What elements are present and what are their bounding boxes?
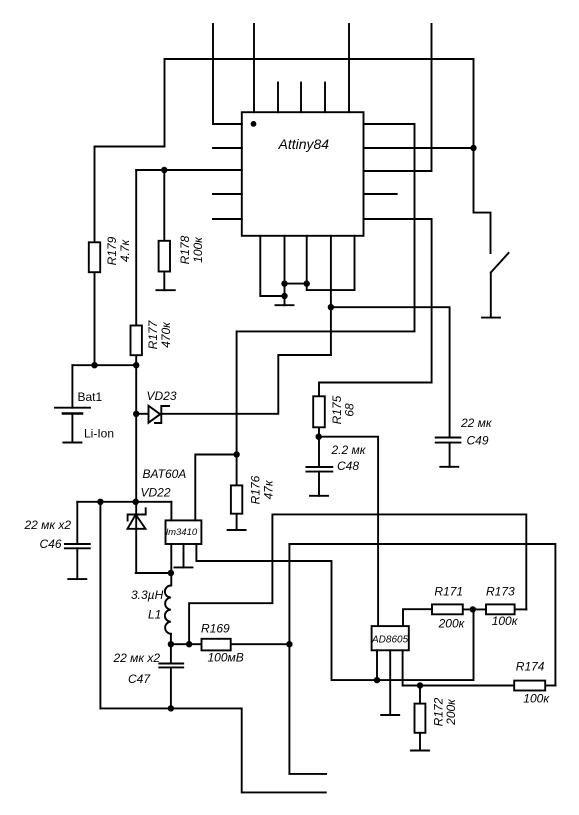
svg-text:VD23: VD23	[147, 389, 177, 403]
junction node at switch net	[470, 145, 476, 151]
svg-text:R169: R169	[201, 622, 230, 636]
junction node R177 bottom	[133, 362, 139, 368]
wire feedback branch	[189, 514, 526, 644]
wire C48 top	[318, 437, 320, 467]
junction node C46 rail	[97, 499, 103, 505]
svg-text:C49: C49	[467, 434, 489, 448]
svg-text:2.2 мк: 2.2 мк	[331, 443, 367, 457]
svg-text:AD8605: AD8605	[371, 635, 409, 646]
svg-text:100к: 100к	[191, 236, 205, 263]
wire R176 bottom	[236, 514, 238, 530]
wire R174 right	[545, 685, 555, 687]
wire battery top	[71, 365, 73, 408]
resistor R176 body	[231, 485, 242, 513]
junction node R178 top	[161, 167, 167, 173]
svg-text:VD22: VD22	[141, 486, 171, 500]
wire IC bottom pin x260	[260, 236, 284, 296]
wire bus y544 R174 net	[289, 544, 555, 686]
ground C49	[440, 466, 458, 468]
wire IC bottom pin x306	[307, 236, 355, 290]
wire R172 top	[419, 686, 421, 704]
wire R175 node to AD8605 top pin	[319, 437, 378, 626]
svg-text:100к: 100к	[492, 614, 519, 628]
resistor R169 body	[202, 639, 231, 651]
junction node IC gnd pin306	[304, 280, 310, 286]
ground R176	[228, 529, 246, 531]
diode VD23 triangle	[149, 406, 161, 423]
junction node VD22 bottom	[168, 570, 174, 576]
svg-text:R179: R179	[105, 236, 119, 265]
svg-text:C48: C48	[337, 459, 359, 473]
switch SW1 blade	[491, 253, 509, 273]
junction node L1 bottom	[168, 641, 174, 647]
wire IC left pin y170	[136, 169, 242, 171]
svg-text:68: 68	[343, 403, 357, 417]
wire IC top stub x325	[324, 83, 326, 113]
svg-text:22 мк: 22 мк	[460, 416, 493, 430]
junction node AD8605 minus	[374, 677, 380, 683]
junction node C49 tap	[328, 304, 334, 310]
inductor L1 coil	[165, 586, 171, 634]
op-amp U3 AD8605 box	[372, 626, 409, 650]
resistor R178 body	[159, 241, 170, 272]
wire left drop from top bus	[95, 59, 165, 242]
ground C48	[310, 495, 328, 497]
junction node R175 bottom	[316, 434, 322, 440]
battery Bat1 plate long	[55, 407, 90, 409]
capacitor C48 plate top	[306, 466, 332, 468]
svg-text:C47: C47	[128, 672, 151, 686]
capacitor C46 plate bottom	[65, 547, 90, 549]
wire C48 bottom	[318, 472, 320, 496]
svg-text:47к: 47к	[262, 479, 276, 499]
wire IC right pin y148 to node	[364, 147, 474, 149]
svg-text:R176: R176	[249, 475, 263, 504]
wire IC top stub x278	[277, 83, 279, 113]
svg-text:Bat1: Bat1	[78, 390, 103, 404]
junction node R172 top	[417, 682, 423, 688]
wire R176 node to lm3410 top pin right	[195, 455, 236, 521]
wire IC left stub y148	[213, 147, 242, 149]
resistor R171 body	[432, 604, 463, 614]
wire node to switch	[474, 148, 491, 253]
ground R172	[411, 750, 429, 752]
svg-text:R171: R171	[434, 585, 463, 599]
wire C49 branch y307	[331, 307, 450, 437]
junction node R171 R173	[470, 606, 476, 612]
ground switch	[482, 317, 500, 319]
wire R179 bottom	[94, 272, 96, 365]
wire R178 top	[163, 170, 165, 241]
capacitor C46 plate top	[65, 543, 90, 545]
wire IC bottom pin x284 to ground	[284, 236, 286, 305]
resistor R177 body	[131, 326, 142, 356]
svg-text:R174: R174	[516, 660, 545, 674]
IC U1 Attiny84 box	[242, 112, 364, 236]
wire IC top pin x254	[253, 24, 255, 112]
wire R175 bottom	[318, 427, 320, 436]
ground lm3410	[175, 566, 193, 568]
wire R172 bottom	[419, 733, 421, 751]
wire pin x306 tap to ground node	[285, 283, 307, 285]
wire IC left stub y219	[213, 218, 242, 220]
wire vertical x213 to IC pin PA?	[213, 24, 242, 124]
svg-text:BAT60A: BAT60A	[143, 467, 187, 481]
svg-text:470к: 470к	[159, 321, 173, 348]
resistor R174 body	[514, 681, 545, 691]
capacitor C48 plate bottom	[306, 471, 332, 473]
junction node C47 bottom	[168, 705, 174, 711]
wire R169 right	[231, 643, 290, 645]
wire IC top pin x349	[348, 24, 350, 112]
junction node VD22 top	[133, 499, 139, 505]
wire C49 bottom	[449, 443, 451, 467]
svg-text:22 мк x2: 22 мк x2	[113, 651, 161, 665]
wire lm3410 pin GND	[183, 544, 185, 567]
wire R178 bottom	[163, 272, 165, 291]
wire battery bottom	[71, 414, 73, 443]
svg-text:200к: 200к	[438, 617, 466, 631]
wire ground bus y708	[100, 708, 325, 792]
diode VD23 cathode bar	[155, 406, 169, 423]
wire AD8605 plus pin to R172 R174	[403, 650, 515, 685]
wire C46 bottom	[76, 548, 78, 579]
battery Bat1 plate short	[63, 412, 82, 415]
svg-text:R173: R173	[486, 585, 515, 599]
wire L1 bottom	[170, 634, 172, 644]
wire R171 right to node	[463, 608, 486, 610]
svg-text:Li-Ion: Li-Ion	[84, 427, 114, 441]
svg-text:100к: 100к	[523, 692, 550, 706]
svg-text:100мВ: 100мВ	[208, 651, 244, 665]
svg-text:lm3410: lm3410	[166, 527, 198, 538]
wire C47 bottom	[170, 667, 172, 708]
junction node R169 right	[286, 641, 292, 647]
svg-text:C46: C46	[40, 537, 62, 551]
wire VD23 cathode route to IC pin x331 node	[161, 355, 331, 414]
wire IC right pin y124 route to R176 node	[237, 124, 415, 455]
svg-text:3.3µH: 3.3µH	[131, 588, 164, 602]
ground IC	[276, 304, 294, 306]
wire IC bottom pin x331	[330, 236, 332, 355]
wire IC top stub x301	[300, 83, 302, 113]
wire AD8605 minus pin	[376, 650, 378, 680]
wire C46 top	[76, 502, 78, 544]
wire R177 top	[135, 170, 137, 326]
wire right drop from top bus	[473, 59, 475, 148]
capacitor C49 plate bottom	[436, 442, 461, 444]
pin 1 mark Attiny84	[251, 121, 257, 127]
wire lm3410 top pin left	[170, 502, 172, 521]
capacitor C49 plate top	[436, 437, 461, 439]
wire positive spine x136	[135, 365, 137, 573]
diode VD23 anode wire	[136, 413, 148, 415]
ground AD8605	[381, 714, 399, 716]
junction node R179 bottom	[91, 362, 97, 368]
resistor R175 body	[313, 396, 325, 427]
wire IC right stub y194	[364, 193, 397, 195]
wire output node y644	[171, 643, 202, 645]
svg-text:200к: 200к	[444, 698, 458, 726]
capacitor C47 plate bottom	[159, 666, 183, 668]
wire VD22 bottom to lm3410	[136, 572, 171, 574]
resistor R172 body	[415, 704, 426, 733]
wire lm3410 pin FB route to AD8605	[196, 544, 473, 680]
svg-text:L1: L1	[148, 608, 161, 622]
svg-text:4.7к: 4.7к	[118, 238, 132, 262]
wire switch lower terminal	[490, 273, 492, 318]
ground R178	[156, 289, 174, 291]
svg-text:Attiny84: Attiny84	[278, 136, 330, 152]
svg-text:R178: R178	[178, 235, 192, 264]
wire IC right pin y219 route to R175 top	[319, 219, 432, 396]
wire bus x289 down	[289, 544, 326, 774]
svg-text:R177: R177	[146, 319, 160, 349]
IC U2 lm3410 box	[166, 520, 202, 544]
junction node feedback tap	[186, 641, 192, 647]
ground battery	[63, 442, 81, 444]
junction node IC gnd upper	[281, 280, 287, 286]
wire top bus y59	[165, 58, 474, 60]
junction node IC gnd lower	[281, 293, 287, 299]
wire battery rail y365	[72, 364, 136, 366]
wire vertical x431.5 to IC right pin y171	[364, 24, 432, 171]
wire long vertical x100	[99, 502, 101, 709]
wire R177 bottom	[135, 355, 137, 365]
junction node VD23 anode	[133, 411, 139, 417]
resistor R179 body	[89, 242, 100, 272]
wire IC left stub y194	[213, 193, 242, 195]
capacitor C47 plate top	[159, 663, 183, 665]
wire R173 right	[515, 608, 527, 610]
diode VD22 triangle	[128, 515, 146, 529]
wire AD8605 gnd pin	[389, 650, 391, 715]
wire C47 top	[170, 644, 172, 663]
resistor R173 body	[486, 604, 515, 614]
wire C46 rail y502	[77, 501, 171, 503]
junction node R176 top	[233, 451, 239, 457]
ground C46	[68, 578, 86, 580]
diode VD22 cathode bar	[128, 508, 146, 520]
wire lm3410 pin SW to L1 top	[170, 544, 172, 586]
wire AD8605 out pin to R171	[403, 609, 432, 626]
wire R176 top	[236, 455, 238, 486]
svg-text:22 мк x2: 22 мк x2	[24, 518, 72, 532]
